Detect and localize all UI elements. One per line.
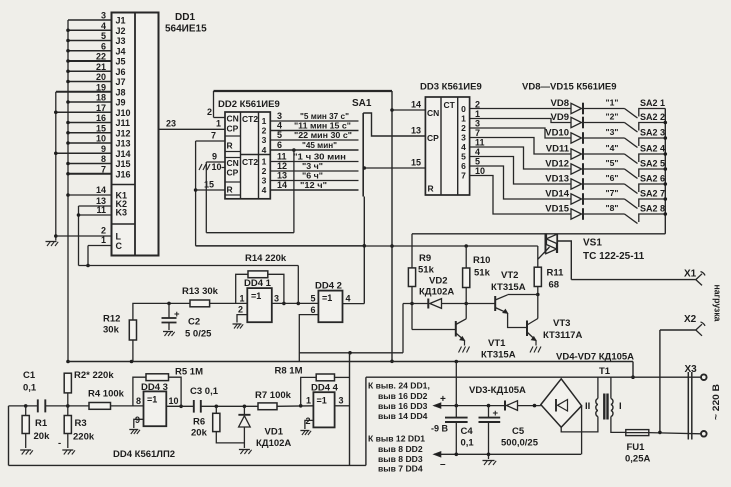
ground C2 — [163, 331, 173, 333]
svg-text:VT3: VT3 — [553, 318, 570, 329]
svg-text:0,1: 0,1 — [23, 383, 37, 394]
wire mains sync loop right up — [365, 377, 367, 465]
wire CN bus vertical (x=392) — [391, 91, 393, 361]
pin 17 wire (J10) of DD1 — [56, 111, 112, 113]
triac VS1 upper triangle — [546, 234, 557, 243]
svg-text:"5 мин 37 с": "5 мин 37 с" — [300, 111, 349, 121]
wire R11 bottom — [537, 287, 539, 295]
svg-text:2: 2 — [238, 305, 243, 315]
svg-text:564ИЕ15: 564ИЕ15 — [165, 24, 207, 35]
junction R10 top — [464, 244, 468, 248]
svg-text:51k: 51k — [418, 265, 435, 276]
wire DD4.2 output up to SA1 — [363, 197, 365, 304]
svg-text:R3: R3 — [75, 418, 87, 429]
connector X2 — [660, 329, 696, 331]
svg-text:"3": "3" — [606, 127, 619, 137]
svg-text:КД102А: КД102А — [256, 438, 291, 449]
svg-text:J1: J1 — [116, 16, 126, 26]
pin 6 wire (J4) of DD1 — [68, 50, 112, 52]
svg-text:VS1: VS1 — [583, 238, 602, 249]
diode VD9 — [571, 117, 582, 127]
wire SA2 bus down to VS1 anode line — [412, 233, 665, 235]
svg-text:10: 10 — [169, 396, 179, 406]
wire DD3 output 4 (pin 11) to diode VD12 — [470, 147, 571, 169]
svg-text:3: 3 — [339, 396, 344, 406]
svg-text:R5 1М: R5 1М — [175, 367, 203, 378]
wire SA1 contact 5 (pin 11) from DD2 — [270, 161, 358, 163]
diode VD13 — [571, 179, 582, 189]
junction C4 bottom — [455, 453, 459, 457]
wire DD3 output 0 (pin 2) to diode VD8 — [470, 108, 571, 110]
svg-text:R: R — [227, 141, 233, 151]
svg-text:КТ3117А: КТ3117А — [543, 330, 582, 341]
wire bridge bottom to T1 secondary — [561, 417, 598, 432]
junction J4 bus — [66, 49, 70, 53]
wire VT3 emitter to ground — [535, 341, 537, 346]
svg-text:DD4 2: DD4 2 — [315, 281, 342, 292]
svg-text:1: 1 — [216, 119, 221, 129]
transistor VT2 emitter — [495, 308, 507, 314]
junction J6 bus — [66, 69, 70, 73]
svg-text:J6: J6 — [116, 67, 126, 77]
junction on 45min row — [292, 148, 296, 152]
wire DD4.1 output to DD4.2 — [272, 302, 319, 304]
svg-text:3: 3 — [277, 111, 282, 121]
diode VD10 — [571, 133, 582, 143]
diode VD12 — [571, 164, 582, 174]
svg-text:4: 4 — [277, 121, 282, 131]
svg-text:7: 7 — [461, 171, 466, 181]
svg-text:2: 2 — [207, 107, 212, 117]
svg-text:3: 3 — [461, 133, 466, 143]
svg-text:SA2 8: SA2 8 — [640, 204, 665, 214]
svg-text:J16: J16 — [116, 169, 131, 179]
svg-text:16: 16 — [96, 113, 106, 123]
svg-text:КТ315А: КТ315А — [491, 282, 526, 293]
svg-text:CT2: CT2 — [242, 114, 258, 124]
transistor VT1 base bar — [455, 321, 457, 337]
pin 8 wire (J15) of DD1 — [68, 163, 112, 165]
wire diode VD10 to SA2.3 contact — [584, 137, 625, 139]
wire R13 line left corner — [133, 303, 247, 320]
svg-text:4: 4 — [262, 185, 267, 195]
diode VD2 — [427, 299, 429, 309]
junction reset line crossing — [390, 244, 394, 248]
resistor R2* — [64, 373, 71, 393]
svg-text:VD3-КД105А: VD3-КД105А — [469, 385, 526, 396]
svg-text:7: 7 — [475, 128, 480, 138]
svg-text:J12: J12 — [116, 128, 131, 138]
resistor R1 — [25, 406, 27, 416]
svg-text:11: 11 — [277, 152, 287, 162]
svg-text:CN: CN — [427, 108, 439, 118]
wire VD2 to VT2 base — [442, 303, 496, 305]
transistor VT3 emitter — [527, 332, 536, 341]
arrow 0V — [434, 452, 441, 457]
svg-text:+: + — [174, 309, 180, 320]
junction DD3 CN — [390, 108, 394, 112]
svg-text:выв 16 DD3: выв 16 DD3 — [378, 401, 428, 411]
svg-text:С3 0,1: С3 0,1 — [190, 386, 219, 397]
svg-text:7: 7 — [101, 164, 106, 174]
svg-text:SA1: SA1 — [352, 98, 372, 109]
svg-text:R9: R9 — [419, 253, 431, 264]
svg-text:C2: C2 — [188, 317, 200, 328]
svg-text:VD2: VD2 — [429, 276, 447, 287]
svg-text:J8: J8 — [116, 87, 126, 97]
svg-text:R10: R10 — [473, 255, 490, 266]
svg-text:5: 5 — [461, 152, 466, 162]
svg-text:2: 2 — [461, 123, 466, 133]
svg-text:3: 3 — [262, 135, 267, 145]
svg-text:0,25А: 0,25А — [625, 454, 650, 465]
junction pin15 — [194, 188, 198, 192]
resistor R8 feedback — [301, 377, 317, 405]
wire R net vertical — [195, 141, 197, 246]
svg-text:CP: CP — [227, 124, 239, 134]
svg-text:выв 8 DD3: выв 8 DD3 — [378, 454, 423, 464]
svg-text:"6": "6" — [606, 173, 619, 183]
svg-text:CN: CN — [227, 158, 239, 168]
svg-text:=1: =1 — [317, 396, 327, 406]
svg-text:220k: 220k — [73, 432, 95, 443]
junction bus to +9V rail — [66, 360, 70, 364]
svg-text:R: R — [428, 184, 434, 194]
transistor VT1 collector — [456, 319, 466, 325]
pin 11 wire (K3) of DD1 — [77, 214, 112, 216]
connector X3 bottom terminal — [701, 431, 707, 437]
ground for DD1 input bus — [46, 241, 57, 243]
svg-text:"45 мин": "45 мин" — [302, 140, 337, 150]
junction R12 rail — [130, 360, 134, 364]
wire up to 45min output — [293, 150, 295, 233]
wire VT1 base line — [412, 329, 456, 331]
svg-text:10: 10 — [211, 162, 221, 172]
wire SA1 contact 1 (pin 3) from DD2 — [270, 120, 358, 122]
junction SA2 bus row 3 — [664, 136, 668, 140]
svg-text:+: + — [493, 408, 499, 419]
svg-text:0,1: 0,1 — [461, 438, 475, 449]
svg-text:VD15: VD15 — [545, 204, 569, 215]
svg-text:VD11: VD11 — [546, 144, 570, 155]
svg-text:=1: =1 — [251, 291, 261, 301]
svg-text:9: 9 — [212, 152, 217, 162]
svg-text:15: 15 — [411, 158, 421, 168]
svg-text:J10: J10 — [116, 108, 131, 118]
svg-text:SA2 6: SA2 6 — [640, 174, 665, 184]
switch SA2.2 output contact — [639, 123, 666, 131]
svg-text:FU1: FU1 — [627, 442, 646, 453]
pin 7 wire (R) of DD2 — [196, 140, 225, 142]
pin 4 wire DD4.2 output — [343, 303, 365, 305]
resistor R12 — [129, 320, 136, 340]
svg-text:I: I — [619, 401, 622, 412]
wire VD2 anode line — [403, 303, 429, 305]
svg-text:10: 10 — [96, 134, 106, 144]
svg-text:1: 1 — [306, 396, 311, 406]
gate DD4.2 — [318, 291, 342, 323]
svg-text:R1: R1 — [35, 418, 48, 429]
wire SA1 contact 7 (pin 13) from DD2 — [270, 180, 358, 182]
junction before bridge — [533, 404, 537, 408]
junction C5 line — [487, 453, 491, 457]
svg-text:J4: J4 — [116, 46, 126, 56]
junction R1 — [24, 404, 28, 408]
pin 9 wire (CN2) of DD2 — [206, 161, 225, 163]
svg-text:R6: R6 — [193, 417, 205, 428]
junction SA2 bus row 5 — [664, 167, 668, 171]
transformer T1 secondary II — [597, 377, 599, 398]
wire VT1 emitter to ground — [464, 341, 466, 346]
svg-text:4: 4 — [101, 21, 106, 31]
svg-text:DD4 3: DD4 3 — [141, 382, 168, 393]
wire DD3 output 6 (pin 5) to diode VD14 — [470, 166, 571, 199]
svg-text:К выв. 24 DD1,: К выв. 24 DD1, — [368, 381, 430, 391]
pin 21 wire (J6) of DD1 — [68, 70, 112, 72]
svg-text:J14: J14 — [116, 149, 131, 159]
junction J2 bus — [66, 28, 70, 32]
pin 3 wire (J1) of DD1 — [68, 19, 112, 21]
transistor VT3 collector — [527, 319, 538, 326]
wire VD2 left end down — [402, 304, 404, 353]
wire diode VD11 to SA2.4 contact — [584, 153, 625, 155]
wire DD4.4 output feedback vertical — [349, 353, 351, 466]
junction SA2 bus row 2 — [664, 121, 668, 125]
svg-text:4: 4 — [262, 145, 267, 155]
svg-text:SA2 5: SA2 5 — [640, 159, 665, 169]
svg-text:3: 3 — [475, 119, 480, 129]
svg-text:19: 19 — [96, 82, 106, 92]
triac VS1 bars — [544, 233, 547, 253]
junction SA2 bus row 8 — [664, 212, 668, 216]
svg-text:КТ315А: КТ315А — [481, 350, 516, 361]
junction K1 bus — [66, 193, 70, 197]
svg-text:С5: С5 — [512, 426, 525, 437]
junction X2 branch — [658, 431, 662, 435]
svg-text:"3 ч": "3 ч" — [302, 161, 323, 171]
junction C4 top — [455, 404, 459, 408]
junction J14 — [54, 151, 58, 155]
svg-text:8: 8 — [136, 396, 141, 406]
wire vertical bus left of DD1 (x=68) — [67, 20, 69, 362]
svg-text:CT: CT — [444, 100, 456, 110]
svg-text:30k: 30k — [103, 325, 120, 336]
svg-text:15: 15 — [204, 180, 214, 190]
svg-text:20: 20 — [96, 72, 106, 82]
junction J10 — [54, 110, 58, 114]
gate DD4.3 — [144, 391, 167, 426]
switch SA1 wiper rail — [362, 113, 364, 197]
svg-text:=1: =1 — [322, 293, 332, 303]
switch SA2.1 output contact — [639, 109, 666, 117]
svg-text:II: II — [585, 401, 590, 412]
svg-text:14: 14 — [277, 180, 287, 190]
diode VD3 — [504, 401, 506, 411]
wire SA1 contact 3 (pin 5) from DD2 — [270, 139, 358, 141]
junction J3 bus — [66, 39, 70, 43]
svg-text:0: 0 — [461, 104, 466, 114]
pin 9 wire DD4.3 — [134, 419, 144, 428]
pin 22 wire (J5) of DD1 — [68, 60, 112, 62]
wire oscillator input line — [9, 405, 38, 407]
switch SA2.3 output contact — [639, 138, 666, 146]
gate DD4.1 — [247, 288, 271, 322]
svg-text:1: 1 — [262, 116, 267, 126]
junction feedback vertical — [348, 351, 352, 355]
svg-text:13: 13 — [277, 171, 287, 181]
svg-text:X1: X1 — [684, 269, 697, 280]
wire C4 up to rail — [455, 362, 457, 406]
transistor VT3 base bar — [526, 321, 528, 337]
junction J11 bus — [66, 121, 70, 125]
pin 6 wire DD4.2 — [299, 315, 318, 362]
svg-text:C1: C1 — [23, 370, 36, 381]
ground VT1 — [459, 347, 462, 353]
svg-text:3: 3 — [262, 176, 267, 186]
wire SA1 contact 4 (pin 6) from DD2 — [270, 149, 358, 151]
svg-text:R14 220k: R14 220k — [245, 253, 287, 264]
svg-text:J13: J13 — [116, 139, 131, 149]
svg-text:J11: J11 — [116, 118, 131, 128]
wire DD4.3 output — [166, 405, 194, 407]
ground R1 — [20, 449, 31, 451]
svg-text:17: 17 — [96, 103, 106, 113]
svg-text:"12 ч": "12 ч" — [300, 180, 327, 190]
svg-text:1: 1 — [262, 157, 267, 167]
junction R6 — [215, 405, 219, 409]
capacitor C1 — [37, 399, 39, 412]
wire bridge minus down — [581, 406, 583, 455]
svg-text:5: 5 — [277, 130, 282, 140]
wire mains top line — [366, 376, 701, 378]
pin 23 wire of DD1 to DD2 — [159, 128, 226, 130]
svg-text:VT2: VT2 — [501, 270, 518, 281]
svg-text:"11 мин 15 с": "11 мин 15 с" — [294, 121, 351, 131]
IC DD3 body — [425, 97, 469, 195]
svg-text:4: 4 — [461, 142, 466, 152]
switch SA2.3 arm — [625, 138, 638, 148]
svg-text:68: 68 — [549, 280, 560, 291]
junction J13 bus — [66, 141, 70, 145]
svg-text:VD1: VD1 — [265, 427, 284, 438]
svg-text:6: 6 — [461, 161, 466, 171]
svg-text:SA2 4: SA2 4 — [640, 144, 665, 154]
svg-text:DD3 К561ИЕ9: DD3 К561ИЕ9 — [420, 82, 482, 93]
wire VT2 emitter down to VT3 base — [508, 313, 527, 327]
svg-text:J5: J5 — [116, 57, 126, 67]
wire VS1 gate — [538, 247, 550, 267]
pin 15 wire (R) of DD2 — [196, 189, 225, 191]
svg-text:R8 1М: R8 1М — [275, 366, 303, 377]
wire CN2 bottom run — [206, 232, 294, 234]
bridge rectifier VD4-VD7 — [541, 379, 582, 428]
wire mains sync loop bottom — [9, 464, 366, 466]
switch SA2.2 arm — [625, 123, 638, 133]
svg-text:"1": "1" — [606, 98, 619, 108]
junction J12 bus — [66, 131, 70, 135]
wire VT2 collector run — [508, 294, 538, 296]
svg-text:20k: 20k — [191, 428, 208, 439]
svg-text:SA2 2: SA2 2 — [640, 112, 665, 122]
junction J15 bus — [66, 162, 70, 166]
svg-text:10: 10 — [475, 166, 485, 176]
svg-text:CT2: CT2 — [242, 157, 258, 167]
svg-text:SA2 7: SA2 7 — [640, 189, 665, 199]
transistor VT1 emitter — [456, 333, 465, 341]
svg-text:CP: CP — [427, 133, 439, 143]
wire diode VD14 to SA2.7 contact — [584, 198, 625, 200]
switch SA2.6 output contact — [639, 184, 666, 192]
svg-text:VD10: VD10 — [545, 128, 569, 139]
transformer T1 core — [603, 394, 605, 420]
wire SA1 contact 6 (pin 12) from DD2 — [270, 170, 358, 172]
pin 16 wire (J11) of DD1 — [68, 122, 112, 124]
svg-text:+: + — [440, 394, 446, 405]
svg-text:18: 18 — [96, 93, 106, 103]
resistor R13 — [190, 300, 210, 307]
resistor R7 — [258, 403, 277, 410]
svg-text:С4: С4 — [461, 426, 474, 437]
wire CN top line to right vertical — [214, 90, 393, 92]
diode VD1 — [243, 406, 245, 414]
switch SA2.4 arm — [625, 154, 638, 164]
svg-text:9: 9 — [135, 415, 140, 425]
svg-text:5: 5 — [310, 294, 315, 304]
wire gate line from DD2 reset net — [196, 245, 538, 247]
pin 14 wire (CN) of DD3 — [392, 109, 425, 111]
svg-text:2: 2 — [262, 166, 267, 176]
wire oscillator clock line to DD4.1 output — [79, 265, 299, 267]
svg-text:SA2 1: SA2 1 — [640, 98, 665, 108]
ground DD4.1 pin2 — [233, 323, 242, 325]
capacitor C3 — [193, 400, 195, 413]
pin 2 wire (CN) of DD2 from top loop — [214, 117, 226, 119]
svg-text:R11: R11 — [547, 268, 565, 279]
wire down to VT3 collector — [537, 295, 539, 319]
svg-text:DD1: DD1 — [175, 12, 195, 23]
svg-text:2: 2 — [475, 100, 480, 110]
pin 2 wire DD4.4 — [305, 420, 314, 429]
svg-text:R12: R12 — [103, 314, 120, 325]
triac VS1 lower triangle — [546, 244, 557, 253]
svg-text:–: – — [440, 459, 446, 470]
wire +9V rail — [68, 361, 633, 363]
wire diode VD15 to SA2.8 contact — [584, 213, 625, 215]
svg-text:1: 1 — [101, 235, 106, 245]
capacitor C4 — [455, 406, 457, 418]
svg-text:"2": "2" — [606, 112, 619, 122]
resistor R10 — [465, 246, 467, 268]
svg-text:VD8: VD8 — [551, 98, 569, 109]
capacitor C5 electrolytic — [488, 406, 490, 418]
switch SA2.5 output contact — [639, 169, 666, 177]
wire mains sync loop left — [8, 406, 10, 466]
junction SA2 bus row 4 — [664, 152, 668, 156]
svg-text:2: 2 — [101, 226, 106, 236]
svg-text:DD4 4: DD4 4 — [311, 383, 339, 394]
svg-text:1: 1 — [239, 294, 244, 304]
svg-text:Х3: Х3 — [685, 364, 698, 375]
bridge inner diode — [555, 399, 557, 412]
resistor R11 — [534, 267, 541, 286]
svg-text:4: 4 — [346, 294, 351, 304]
svg-text:VD12: VD12 — [545, 159, 569, 170]
svg-text:L: L — [116, 232, 122, 242]
pin 9 wire (J14) of DD1 — [56, 152, 112, 154]
resistor R5 feedback — [133, 377, 146, 406]
junction R8 left — [299, 404, 303, 408]
diode VD8 — [571, 103, 582, 113]
